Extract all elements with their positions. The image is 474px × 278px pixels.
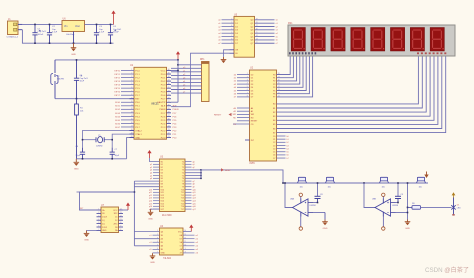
U7 left pin 1A xyxy=(97,209,102,211)
capacitor C1 100uF xyxy=(32,24,40,43)
U2 left pin A0 xyxy=(237,107,250,109)
svg-text:w6: w6 xyxy=(196,253,198,255)
svg-text:9: 9 xyxy=(185,248,186,250)
svg-text:6: 6 xyxy=(157,248,158,250)
U3 right pin 36 xyxy=(185,161,192,163)
U3 left pin 4 xyxy=(153,169,160,171)
U2 left pin D3 xyxy=(237,83,250,85)
svg-text:SW-PB: SW-PB xyxy=(57,78,64,80)
svg-text:q13: q13 xyxy=(193,198,196,200)
svg-text:GND: GND xyxy=(405,228,410,230)
svg-text:e3: e3 xyxy=(149,242,151,244)
svg-text:GND: GND xyxy=(161,253,166,255)
U1 right pin 40 VCC xyxy=(167,70,172,72)
capacitor C7 xyxy=(110,148,115,159)
svg-text:10uF: 10uF xyxy=(80,81,85,83)
svg-text:P0.4: P0.4 xyxy=(161,88,166,90)
svg-text:1CLR: 1CLR xyxy=(102,217,108,219)
U3 right pin 20 xyxy=(185,205,192,207)
U3 right pin 30 xyxy=(185,177,201,179)
U1 left pin 3 P1.2 xyxy=(121,77,134,79)
U7 right pin 2A xyxy=(119,229,124,231)
svg-text:S15: S15 xyxy=(161,203,164,205)
capacitor C4 100uF xyxy=(108,24,116,43)
U1 left pin 17 P3.7 xyxy=(121,126,134,128)
capacitor C3 0.1uF xyxy=(94,24,99,43)
svg-text:25: 25 xyxy=(168,122,170,124)
svg-text:8: 8 xyxy=(231,39,232,41)
capacitor C6 xyxy=(80,148,85,159)
svg-text:27: 27 xyxy=(168,115,170,117)
svg-text:T14: T14 xyxy=(181,201,184,203)
svg-text:18: 18 xyxy=(131,129,133,131)
svg-text:5: 5 xyxy=(247,86,248,88)
svg-text:KEY7: KEY7 xyxy=(114,95,120,97)
svg-text:37: 37 xyxy=(168,80,170,82)
U2 right pin SB5 long wire to display xyxy=(277,56,438,124)
resistor R6 output xyxy=(408,203,452,209)
svg-text:10: 10 xyxy=(184,244,186,246)
svg-text:7: 7 xyxy=(98,229,99,231)
svg-text:4: 4 xyxy=(247,83,248,85)
svg-text:P1.6: P1.6 xyxy=(135,92,140,94)
svg-text:23: 23 xyxy=(278,89,280,91)
svg-text:9: 9 xyxy=(231,42,232,44)
U2 right pin SB6 long wire to display xyxy=(277,56,442,129)
svg-text:P2.1: P2.1 xyxy=(161,134,166,136)
U3 left pin 12 xyxy=(153,191,160,193)
svg-text:2: 2 xyxy=(131,73,132,75)
svg-text:T9: T9 xyxy=(182,187,184,189)
svg-text:T4: T4 xyxy=(182,173,184,175)
U5 Q6 output pin wire xyxy=(255,39,275,41)
power port VCC at U3 xyxy=(147,150,151,158)
svg-text:13: 13 xyxy=(184,234,186,236)
svg-text:T17: T17 xyxy=(181,209,184,211)
svg-text:10k: 10k xyxy=(300,187,303,189)
op-amp U8B xyxy=(375,199,396,217)
svg-text:p6: p6 xyxy=(150,178,152,180)
svg-text:P1.3: P1.3 xyxy=(135,81,140,83)
svg-text:T6: T6 xyxy=(182,178,184,180)
svg-text:P2.0: P2.0 xyxy=(161,137,166,139)
svg-text:S0: S0 xyxy=(161,161,163,163)
op-amp U8A xyxy=(293,199,314,217)
svg-text:29: 29 xyxy=(168,108,170,110)
svg-text:SIG5: SIG5 xyxy=(115,120,121,122)
svg-text:Cap Pol1: Cap Pol1 xyxy=(113,29,122,31)
svg-text:p3: p3 xyxy=(150,170,152,172)
U5 Q3 output pin wire xyxy=(255,29,275,31)
U1 left pin 4 P1.3 xyxy=(121,80,134,82)
U5 D2 input pin xyxy=(222,26,235,28)
svg-text:3: 3 xyxy=(157,237,158,239)
U2 right pin C1 xyxy=(277,138,286,140)
svg-text:16: 16 xyxy=(131,122,133,124)
svg-text:S14: S14 xyxy=(161,201,164,203)
svg-text:27: 27 xyxy=(278,76,280,78)
svg-text:VCC: VCC xyxy=(113,210,118,212)
svg-text:e1: e1 xyxy=(149,235,151,237)
svg-text:4: 4 xyxy=(231,25,232,27)
svg-text:30pF: 30pF xyxy=(115,155,120,157)
svg-text:p11: p11 xyxy=(149,192,152,194)
svg-text:11: 11 xyxy=(184,241,186,243)
U1 right pin 36 P0.3 xyxy=(167,84,172,86)
latch U5 74HC573 xyxy=(234,16,255,57)
power port ring stage1 bottom xyxy=(300,212,302,227)
svg-text:P2.6: P2.6 xyxy=(161,116,166,118)
svg-text:e5: e5 xyxy=(149,249,151,251)
svg-text:P3.6: P3.6 xyxy=(135,123,140,125)
U3 right pin 31 xyxy=(185,175,201,177)
power port ring stage1 top xyxy=(299,193,302,196)
U3 left pin 17 xyxy=(153,205,160,207)
svg-text:12: 12 xyxy=(131,108,133,110)
wire RP1 pin3 to P0.1 xyxy=(171,71,202,73)
svg-text:BEEP: BEEP xyxy=(225,170,231,172)
U2 left pin D6 xyxy=(237,93,250,95)
wire U3 left pins to loop vertical xyxy=(133,181,135,246)
svg-text:12MHz: 12MHz xyxy=(96,146,103,148)
svg-text:12: 12 xyxy=(256,42,258,44)
svg-text:8: 8 xyxy=(185,252,186,254)
U7 left pin 1B xyxy=(97,212,102,214)
U2 left pin RESET xyxy=(237,120,250,122)
svg-text:P3.1: P3.1 xyxy=(135,106,140,108)
svg-text:4: 4 xyxy=(157,241,158,243)
U4 right pin VCC xyxy=(183,231,191,233)
svg-text:P2.3: P2.3 xyxy=(161,127,166,129)
svg-text:100uF: 100uF xyxy=(113,32,119,34)
regulator ground pin wire xyxy=(73,32,75,44)
U1 right pin 24 P2.3 xyxy=(167,126,172,128)
svg-text:RESET: RESET xyxy=(214,114,222,116)
ground under U4 xyxy=(150,253,156,264)
svg-text:7: 7 xyxy=(131,90,132,92)
svg-text:3: 3 xyxy=(131,76,132,78)
U1 left pin 18 XTAL2 xyxy=(130,130,135,132)
U2 right pin SA1 wire to display xyxy=(277,56,294,78)
svg-text:24: 24 xyxy=(168,126,170,128)
svg-text:PSEN: PSEN xyxy=(159,109,165,111)
svg-text:LM358: LM358 xyxy=(310,205,317,207)
svg-text:26: 26 xyxy=(278,80,280,82)
U1 left pin 14 P3.4 xyxy=(121,115,134,117)
U1 left pin 8 P1.7 xyxy=(121,94,134,96)
U3 left pin 9 xyxy=(134,183,159,185)
svg-text:p13: p13 xyxy=(149,198,152,200)
svg-text:KEY6: KEY6 xyxy=(114,92,120,94)
U5 Q5 output pin wire xyxy=(255,36,275,38)
capacitor C9 stage2 xyxy=(397,183,399,196)
wire VCC vertical at MCU right xyxy=(177,60,179,102)
U3 right pin 21 xyxy=(185,203,192,205)
svg-text:38: 38 xyxy=(168,76,170,78)
svg-text:34: 34 xyxy=(168,90,170,92)
svg-text:T2: T2 xyxy=(182,167,184,169)
U1 right pin 29 PSEN xyxy=(167,108,172,110)
svg-text:P2.7: P2.7 xyxy=(161,113,166,115)
svg-text:2: 2 xyxy=(231,18,232,20)
svg-text:7: 7 xyxy=(157,252,158,254)
svg-text:T13: T13 xyxy=(181,198,184,200)
svg-text:1: 1 xyxy=(131,69,132,71)
svg-text:GND: GND xyxy=(71,54,76,56)
svg-text:P2.5: P2.5 xyxy=(161,120,166,122)
svg-text:S5: S5 xyxy=(161,175,163,177)
U5 Q4 output pin wire xyxy=(255,32,275,34)
svg-text:q10: q10 xyxy=(193,189,196,191)
U2 left pin RD xyxy=(237,117,250,119)
U4 right pin 6A xyxy=(183,234,195,236)
svg-text:2: 2 xyxy=(157,234,158,236)
capacitor C5 10uF reset xyxy=(74,60,82,99)
svg-text:12: 12 xyxy=(120,215,122,217)
U2 right pin SB3 long wire to display xyxy=(277,56,431,116)
U3 left pin 5 xyxy=(153,172,160,174)
svg-text:q15: q15 xyxy=(193,203,196,205)
U1 right pin 25 P2.4 xyxy=(167,122,172,124)
svg-text:15: 15 xyxy=(131,119,133,121)
switch S1 reset button xyxy=(51,60,58,99)
svg-text:CON(DC)-2: CON(DC)-2 xyxy=(7,37,19,39)
resistor R3 xyxy=(326,177,335,188)
U3 right pin 32 xyxy=(185,172,201,174)
U3 right pin 29 xyxy=(185,180,192,182)
U2 right pin SA2 wire to display xyxy=(277,56,297,81)
svg-text:100uF: 100uF xyxy=(38,34,44,36)
svg-text:31: 31 xyxy=(168,101,170,103)
U3 left pin 8 xyxy=(134,180,159,182)
wire stage1 plus input xyxy=(313,202,318,204)
ground crystal xyxy=(74,159,80,171)
svg-text:5: 5 xyxy=(231,28,232,30)
U2 left pin CS xyxy=(233,123,250,125)
svg-text:q0: q0 xyxy=(193,161,195,163)
svg-text:KEY0: KEY0 xyxy=(114,70,120,72)
wire latch LE to U1 ALE pin xyxy=(171,53,230,106)
U5 D3 input pin xyxy=(222,29,235,31)
svg-text:21: 21 xyxy=(278,96,280,98)
svg-text:S11: S11 xyxy=(161,192,164,194)
wire stage2 plus input xyxy=(396,202,399,204)
svg-text:GND: GND xyxy=(148,219,153,221)
svg-text:24: 24 xyxy=(278,86,280,88)
display digit 2 xyxy=(311,28,325,52)
display left pin labels xyxy=(289,52,316,54)
svg-text:GND: GND xyxy=(323,228,328,230)
U1 left pin 2 P1.1 xyxy=(121,73,134,75)
U3 right pin 33 xyxy=(185,169,201,171)
svg-text:S4: S4 xyxy=(161,173,163,175)
U1 right pin 28 P2.7 xyxy=(167,112,172,114)
wire stage2 output xyxy=(364,183,375,208)
svg-text:P2.4: P2.4 xyxy=(161,123,166,125)
U3 right pin 24 xyxy=(185,194,192,196)
power port VCC at MCU xyxy=(176,51,180,60)
svg-text:SIG4: SIG4 xyxy=(115,116,121,118)
svg-text:6: 6 xyxy=(98,226,99,228)
svg-text:3: 3 xyxy=(247,80,248,82)
wire reset top rail xyxy=(55,59,178,61)
U2 right pin C3 xyxy=(277,144,286,146)
U2 right pin SA3 wire to display xyxy=(277,56,300,84)
U7 left pin 2CLR xyxy=(97,226,102,228)
svg-text:74LS04: 74LS04 xyxy=(163,258,172,260)
svg-text:8: 8 xyxy=(131,94,132,96)
svg-text:2RC: 2RC xyxy=(113,223,118,225)
svg-text:S2: S2 xyxy=(161,167,163,169)
wire power top rail right xyxy=(85,23,114,25)
svg-text:p16: p16 xyxy=(149,206,152,208)
U2 right pin C4 xyxy=(277,148,286,150)
svg-text:35: 35 xyxy=(168,87,170,89)
svg-text:RESET: RESET xyxy=(251,121,258,123)
U4 right pin 5Y xyxy=(183,245,195,247)
U4 left pin GND xyxy=(153,252,160,254)
U1 left pin 19 XTAL1 xyxy=(130,133,135,135)
U1 left pin 5 P1.4 xyxy=(121,84,134,86)
wire latch OE to ground xyxy=(224,50,230,57)
svg-text:p5: p5 xyxy=(150,175,152,177)
svg-text:p2: p2 xyxy=(150,167,152,169)
svg-text:XTAL2: XTAL2 xyxy=(135,129,142,132)
display right pin labels xyxy=(417,52,446,54)
svg-text:ALE: ALE xyxy=(173,105,178,108)
display digit 7 xyxy=(410,28,424,52)
svg-text:SIG7: SIG7 xyxy=(115,127,121,129)
wire U7 routing loop xyxy=(80,192,135,210)
svg-text:21: 21 xyxy=(168,136,170,138)
svg-text:3: 3 xyxy=(98,215,99,217)
svg-text:VCC: VCC xyxy=(161,70,166,72)
U5 Q2 output pin wire xyxy=(255,26,275,28)
U2 right pin C2 xyxy=(277,141,286,143)
U2 right pin SB1 long wire to display xyxy=(277,56,423,108)
svg-text:P3.2: P3.2 xyxy=(135,109,140,111)
resistor R2 xyxy=(298,177,307,188)
U1 left pin 7 P1.6 xyxy=(121,91,134,93)
U2 left pin D0 xyxy=(237,74,250,76)
U2 left pin D4 xyxy=(237,86,250,88)
wire stage1 output xyxy=(285,183,293,208)
wire RP1 pin2 to P0.0 xyxy=(171,67,202,69)
svg-text:9: 9 xyxy=(131,97,132,99)
voltage regulator U6 L7805 xyxy=(62,21,85,32)
7-segment display DS1 body xyxy=(288,25,455,56)
U3 left pin 18 xyxy=(153,208,160,210)
svg-text:5: 5 xyxy=(98,222,99,224)
svg-text:40: 40 xyxy=(168,69,170,71)
svg-text:2Q: 2Q xyxy=(102,223,105,225)
U1 right pin 26 P2.5 xyxy=(167,119,172,121)
svg-text:13: 13 xyxy=(131,111,133,113)
svg-text:P0.6: P0.6 xyxy=(161,95,166,97)
U7 right pin VCC xyxy=(119,209,124,211)
svg-text:ZLG7290: ZLG7290 xyxy=(162,215,172,217)
svg-text:8: 8 xyxy=(120,229,121,231)
svg-text:P0.7: P0.7 xyxy=(161,99,166,101)
U3 right pin 35 xyxy=(185,163,192,165)
svg-text:GND: GND xyxy=(84,240,89,242)
svg-text:1: 1 xyxy=(247,73,248,75)
svg-text:4: 4 xyxy=(98,219,99,221)
U3 left pin 2 xyxy=(153,163,160,165)
U1 left pin 1 P1.0 xyxy=(121,70,134,72)
svg-text:22: 22 xyxy=(168,133,170,135)
svg-text:10k: 10k xyxy=(382,187,385,189)
U1 right pin 27 P2.6 xyxy=(167,115,172,117)
power arrow above R5 xyxy=(424,172,428,179)
power port VCC top xyxy=(111,11,115,25)
svg-text:10k: 10k xyxy=(419,187,422,189)
capacitor C8 stage1 xyxy=(317,183,319,196)
U2 left pin D2 xyxy=(237,80,250,82)
svg-text:25: 25 xyxy=(278,83,280,85)
svg-text:13: 13 xyxy=(256,39,258,41)
svg-text:U8A: U8A xyxy=(290,198,295,201)
U5 D7 input pin xyxy=(222,42,235,44)
svg-text:P2.2: P2.2 xyxy=(161,130,166,132)
svg-text:SIG6: SIG6 xyxy=(115,123,121,125)
wire power lower rail xyxy=(22,30,113,44)
U5 LE pin xyxy=(230,52,235,54)
LED D1 output indicator xyxy=(451,198,455,216)
svg-text:RST: RST xyxy=(135,99,140,101)
U1 right pin 30 ALE xyxy=(167,105,172,107)
wire stage2 minus input xyxy=(396,212,408,214)
wire XTAL1 to cap xyxy=(112,134,134,148)
svg-text:T8: T8 xyxy=(182,184,184,186)
wire U3 bus vertical xyxy=(200,170,202,178)
svg-text:q9: q9 xyxy=(193,187,195,189)
svg-text:19: 19 xyxy=(131,133,133,135)
svg-text:w1: w1 xyxy=(196,235,198,237)
svg-text:P1.1: P1.1 xyxy=(135,74,140,76)
wire to U1 VCC pin xyxy=(171,70,178,72)
U1 right pin 37 P0.2 xyxy=(167,80,172,82)
U5 Q0 output pin wire xyxy=(255,19,275,21)
U2 left pin D1 xyxy=(237,77,250,79)
svg-text:10k: 10k xyxy=(328,187,331,189)
U7 right pin 2C xyxy=(119,219,124,221)
svg-text:2: 2 xyxy=(98,212,99,214)
svg-text:33: 33 xyxy=(168,94,170,96)
U4 left pin 3B xyxy=(153,248,160,250)
svg-text:S13: S13 xyxy=(161,198,164,200)
svg-text:7: 7 xyxy=(247,92,248,94)
svg-text:6: 6 xyxy=(247,89,248,91)
svg-text:P3.3: P3.3 xyxy=(135,113,140,115)
wire XTAL2 to cap xyxy=(83,131,135,148)
U5 D5 input pin xyxy=(222,36,235,38)
U7 right pin 2RC xyxy=(119,223,124,225)
wire U7 stub down xyxy=(77,191,80,193)
svg-text:P0.3: P0.3 xyxy=(161,85,166,87)
wire RP1 pin8 to P0.6 xyxy=(171,89,202,91)
wire U7 VCC xyxy=(123,209,128,211)
U1 left pin 11 P3.1 xyxy=(121,105,134,107)
svg-text:S1: S1 xyxy=(161,164,163,166)
svg-text:q12: q12 xyxy=(193,195,196,197)
U4 left pin 3A xyxy=(134,245,159,247)
U5 D1 input pin xyxy=(222,22,235,24)
U3 right pin 19 xyxy=(185,208,192,210)
wire to U1 EA pin xyxy=(171,101,178,103)
U2 right pin C0 xyxy=(277,135,286,137)
U2 right pin SB2 long wire to display xyxy=(277,56,427,112)
